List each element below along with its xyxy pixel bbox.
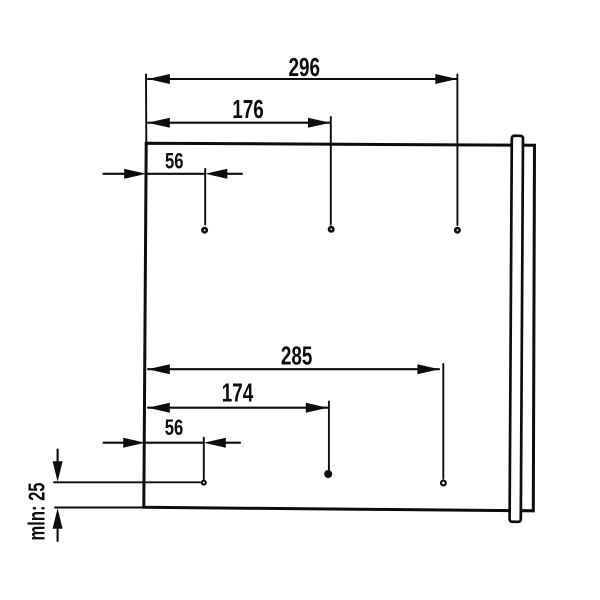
- svg-text:174: 174: [222, 378, 254, 408]
- hole top-right: [455, 228, 459, 232]
- arrow 56 bottom right outside: [223, 442, 241, 444]
- extension line 56 top: [204, 169, 206, 225]
- arrow 56 top right outside: [224, 173, 242, 175]
- hole bottom-middle: [325, 471, 331, 477]
- dimension 56 bottom line: [145, 442, 204, 444]
- extension line 174 right: [328, 402, 330, 471]
- hole top-middle: [329, 227, 333, 231]
- dimension min25 upper stem: [57, 450, 59, 466]
- svg-text:296: 296: [289, 52, 321, 82]
- arrow 56 top left outside: [104, 173, 129, 175]
- arrow 296 right: [435, 74, 457, 84]
- hole top-left: [202, 228, 206, 232]
- svg-text:56: 56: [165, 415, 184, 440]
- hole bottom-left: [202, 481, 206, 485]
- dimension 174 line: [148, 407, 328, 409]
- dimension 56 top line: [146, 173, 205, 175]
- svg-text:56: 56: [165, 149, 184, 174]
- extension line 176 right: [330, 117, 332, 225]
- extension line min25 lower: [55, 507, 145, 509]
- hole bottom-right: [441, 481, 446, 486]
- svg-text:mln: 25: mln: 25: [24, 483, 50, 541]
- arrow 176 right: [308, 118, 330, 128]
- extension line 56 bottom: [203, 438, 205, 479]
- arrow 174 left: [148, 403, 170, 413]
- arrow 56 bottom left outside: [104, 442, 129, 444]
- extension line 285 right: [442, 364, 444, 479]
- dimension 285 line: [148, 368, 439, 370]
- extension line 296 right: [456, 75, 458, 226]
- arrow 176 left: [148, 118, 170, 128]
- dimension min25 lower stem: [57, 525, 59, 541]
- extension line top-left: [145, 74, 147, 143]
- arrow 285 left: [148, 364, 170, 374]
- arrow min25 up: [53, 508, 63, 529]
- dimension 176 line: [148, 122, 330, 124]
- svg-text:176: 176: [232, 94, 264, 124]
- arrow min25 down: [53, 461, 63, 482]
- arrow 285 right: [417, 364, 439, 374]
- extension line min25 upper: [54, 481, 200, 483]
- svg-text:285: 285: [281, 341, 313, 371]
- panel outline: [144, 143, 535, 511]
- side rail tab: [510, 136, 523, 522]
- arrow 296 left: [148, 74, 170, 84]
- arrow 174 right: [306, 403, 328, 413]
- dimension 296 line: [148, 78, 457, 80]
